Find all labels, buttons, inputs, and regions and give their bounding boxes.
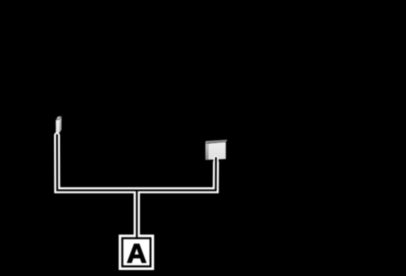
bulb/pin component (left) [56,116,62,133]
connector box (right) [205,140,227,160]
wire: branch to label A (black core) [136,190,138,239]
wire: main harness run (white casing) [57,135,216,190]
node A label box [119,235,154,270]
wire: end cap at connector (white casing) [213,159,218,164]
wire: branch to label A (white casing) [134,190,140,236]
letter A [127,244,146,263]
wire: main harness run (black core) [57,134,216,190]
